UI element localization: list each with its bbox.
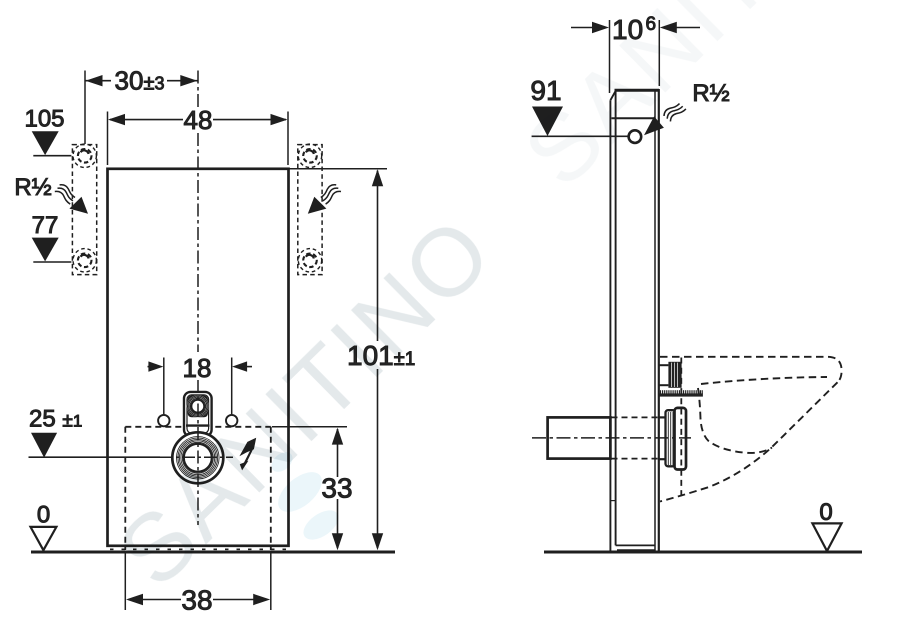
water inlet pipe — [548, 417, 611, 458]
drain bore — [184, 444, 212, 472]
label 0 left with open triangle — [31, 502, 57, 551]
label 25±1 with datum triangle — [29, 405, 161, 457]
column top cap — [615, 89, 660, 92]
svg-text:30±3: 30±3 — [115, 66, 165, 96]
column glass front line — [609, 100, 611, 552]
glass bottom tick — [610, 500, 615, 502]
SIDE VIEW — [530, 14, 862, 552]
drain rings — [177, 437, 220, 480]
label 105 with datum triangle — [24, 106, 71, 156]
flange connectors to wall — [659, 416, 666, 418]
label 77 with datum triangle — [32, 212, 72, 262]
svg-text:0: 0 — [819, 499, 832, 526]
dimension 101±1 — [289, 169, 416, 550]
threaded rod — [668, 362, 681, 388]
watermark swoosh cyan blobs — [268, 448, 344, 545]
column inner horizontal line — [612, 117, 656, 119]
screw top-left — [73, 144, 96, 167]
label R1/2 side — [644, 80, 730, 135]
toilet bowl inner dashed curve — [698, 388, 772, 453]
module base plate line — [110, 548, 286, 550]
label 91 with datum triangle — [530, 75, 628, 136]
dimension 48 — [108, 105, 289, 165]
left anchor strip dashed rect — [72, 145, 96, 275]
serrated mounting bar — [660, 390, 703, 396]
toilet fixing vertical dashed line — [680, 358, 682, 498]
vertical centerline front — [197, 71, 199, 108]
column left inner wall — [615, 91, 617, 546]
toilet bowl dashed outline top — [660, 357, 842, 383]
service opening dashed rect — [125, 426, 270, 428]
svg-text:105: 105 — [24, 106, 64, 133]
extension line for 33 — [272, 426, 347, 428]
outlet flange collar — [666, 410, 676, 466]
toilet rim inner dashed line — [701, 377, 827, 384]
module front panel outline — [108, 169, 289, 546]
right anchor strip dashed rect — [298, 145, 322, 275]
bolt hole left — [158, 415, 169, 426]
FRONT VIEW — [14, 66, 415, 616]
svg-text:48: 48 — [184, 105, 213, 135]
column right outer wall — [658, 89, 660, 551]
drain outer circle — [172, 432, 223, 483]
bolt hole right — [226, 415, 237, 426]
rod wall bracket — [659, 364, 668, 366]
toilet bowl dashed underside — [660, 382, 838, 501]
pipe centerline — [532, 437, 691, 439]
svg-text:R½: R½ — [14, 174, 51, 201]
squiggle arrow right strip — [308, 185, 341, 214]
lightning bolt power symbol — [239, 438, 256, 471]
flush bend bracket — [184, 392, 212, 436]
label 0 right with open triangle — [812, 499, 841, 551]
outlet flange disc — [675, 408, 687, 470]
label R1/2 left — [14, 174, 88, 214]
dimension 18 — [148, 353, 253, 414]
water supply connection circle — [629, 130, 642, 143]
bracket rings — [187, 395, 209, 417]
dimension 10 6 — [571, 14, 700, 93]
dimension 30±3 — [85, 66, 198, 145]
dashed pipe lines through column — [612, 416, 659, 418]
floor line front — [31, 551, 395, 554]
dimension 38 — [125, 552, 270, 616]
svg-text:77: 77 — [32, 212, 59, 239]
dimension 33 — [321, 428, 352, 551]
svg-text:18: 18 — [183, 353, 212, 383]
screw bottom-right — [298, 249, 321, 272]
column right inner wall — [654, 90, 656, 551]
svg-text:0: 0 — [37, 502, 50, 529]
horizontal centerline through drain — [160, 456, 233, 458]
screw top-right — [298, 144, 321, 167]
svg-text:33: 33 — [321, 473, 352, 504]
column bottom cap — [616, 544, 655, 546]
svg-text:25 ±1: 25 ±1 — [29, 405, 82, 432]
column top bevel — [610, 91, 615, 100]
floor line side — [544, 551, 862, 554]
screw bottom-left — [73, 249, 96, 272]
